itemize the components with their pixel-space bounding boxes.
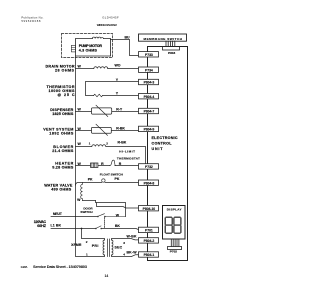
- svg-text:R-Y: R-Y: [116, 108, 123, 112]
- wire dispenser: [76, 111, 139, 113]
- svg-text:SEC: SEC: [115, 246, 123, 250]
- footer service data sheet: [33, 264, 108, 278]
- label WO: [115, 63, 121, 67]
- label NEUT: [53, 212, 63, 216]
- svg-text:PK: PK: [88, 178, 93, 182]
- label W: [78, 162, 82, 166]
- wire blower: [76, 147, 146, 164]
- svg-text:DISPLAY: DISPLAY: [167, 207, 183, 211]
- svg-text:2: 2: [86, 240, 88, 244]
- label W: [78, 108, 82, 112]
- svg-text:2: 2: [106, 141, 108, 145]
- svg-text:PRI: PRI: [92, 244, 99, 248]
- NEUT wire: [51, 216, 97, 218]
- label Y top: [116, 78, 119, 82]
- display connector bar P702: [168, 247, 182, 250]
- wire vent: [76, 130, 139, 132]
- svg-text:P733: P733: [145, 53, 153, 57]
- svg-text:NEUT: NEUT: [53, 212, 63, 216]
- label R-BK: [116, 127, 125, 131]
- svg-text:14: 14: [105, 274, 109, 278]
- heater element symbol: [91, 163, 98, 167]
- label BK: [115, 224, 121, 228]
- svg-text:BU: BU: [125, 36, 131, 40]
- svg-text:3: 3: [123, 241, 125, 245]
- publication number text: [21, 16, 43, 23]
- label W door: [116, 214, 120, 218]
- label HI-LIMIT THERMOSTAT: [117, 150, 140, 161]
- connector P804-1: [139, 252, 159, 257]
- svg-text:P701: P701: [145, 229, 153, 233]
- door switch contact pole 2: [95, 228, 97, 230]
- svg-text:Service Data Sheet - 154079803: Service Data Sheet - 154079803: [33, 264, 88, 269]
- connector P803 bar: [163, 47, 180, 51]
- svg-text:L1 BK: L1 BK: [51, 224, 62, 228]
- svg-text:PUMP MOTOR: PUMP MOTOR: [79, 44, 103, 48]
- svg-text:P732: P732: [145, 165, 153, 169]
- label PK: [115, 177, 120, 181]
- svg-text:FLOAT SWITCH: FLOAT SWITCH: [100, 173, 124, 177]
- float switch contact: [102, 179, 105, 182]
- label R: [101, 162, 104, 166]
- svg-text:PK: PK: [115, 177, 120, 181]
- connector P804-7: [139, 108, 159, 113]
- transformer primary winding: [103, 240, 104, 255]
- blower row: [52, 145, 74, 153]
- svg-text:1: 1: [89, 142, 91, 146]
- svg-text:P804-1: P804-1: [144, 253, 155, 257]
- svg-text:1: 1: [86, 253, 88, 257]
- svg-text:ELECTRONIC: ELECTRONIC: [152, 136, 178, 140]
- svg-text:28 OHMS: 28 OHMS: [55, 68, 75, 72]
- thermistor resistor zigzag: [94, 94, 103, 97]
- label P803: [168, 51, 176, 55]
- label R-Y: [116, 108, 123, 112]
- pump motor label: [79, 44, 103, 52]
- label R: [119, 162, 122, 166]
- svg-text:21.4 OHMS: 21.4 OHMS: [52, 149, 74, 153]
- dispenser row: [50, 108, 74, 116]
- pump motor inner box: [76, 39, 111, 57]
- pin 4: [123, 253, 125, 257]
- transformer core: [108, 239, 110, 257]
- wire float: [76, 183, 139, 186]
- label PRI: [92, 244, 99, 248]
- label W: [78, 64, 82, 68]
- label L1 BK: [51, 224, 62, 228]
- pin 1: [89, 142, 91, 146]
- transformer secondary winding: [112, 240, 114, 255]
- label BU: [125, 36, 131, 40]
- svg-text:1892 OHMS: 1892 OHMS: [49, 132, 74, 136]
- svg-text:BK-W: BK-W: [127, 251, 138, 255]
- connector P804-9: [139, 126, 159, 131]
- svg-text:P804-4: P804-4: [144, 95, 155, 99]
- svg-text:P804-10: P804-10: [143, 207, 156, 211]
- ECU label: [152, 136, 178, 151]
- svg-text:P804-3: P804-3: [144, 81, 155, 85]
- L1 BK wire: [51, 229, 139, 230]
- svg-text:R-BK: R-BK: [118, 140, 127, 144]
- connector P804-4: [139, 94, 159, 99]
- dispenser solenoid symbol: [92, 108, 112, 114]
- connector P734: [139, 67, 159, 72]
- hi-limit thermostat symbol: [110, 160, 116, 165]
- connector P733: [139, 52, 159, 57]
- svg-text:P734: P734: [145, 68, 153, 72]
- blower motor coil: [92, 145, 106, 147]
- W bus wire: [75, 56, 77, 217]
- svg-text:MEMBRANE SWITCH: MEMBRANE SWITCH: [144, 37, 183, 41]
- label FLOAT SWITCH: [100, 173, 124, 177]
- corner mark: [21, 265, 29, 269]
- junction bk/xfmr: [81, 228, 83, 230]
- svg-text:499 OHMS: 499 OHMS: [51, 188, 72, 192]
- vent system row: [43, 128, 74, 136]
- label SEC: [115, 246, 123, 250]
- door switch linkage (dashed): [104, 218, 106, 228]
- membrane switch box: [139, 34, 187, 41]
- label R-BK: [118, 140, 127, 144]
- svg-text:R-BK: R-BK: [116, 127, 125, 131]
- svg-text:THERMOSTAT: THERMOSTAT: [117, 156, 140, 160]
- secondary pin wires: [112, 239, 139, 257]
- pump motor winding coil: [92, 37, 103, 38]
- door switch wire loop to P804-10: [96, 201, 139, 217]
- heater row: [52, 162, 74, 170]
- label Y bottom: [116, 92, 119, 96]
- svg-text:4.3 OHMS: 4.3 OHMS: [79, 49, 98, 53]
- svg-text:BK: BK: [115, 224, 121, 228]
- wire heater: [76, 165, 139, 167]
- connector P804-3: [139, 79, 159, 84]
- svg-text:P702: P702: [170, 249, 178, 253]
- wire valve to door node: [83, 200, 96, 202]
- pin 3: [123, 241, 125, 245]
- connector P804-2: [139, 238, 159, 243]
- label BK-W: [127, 251, 138, 255]
- label XFMR: [71, 243, 82, 247]
- svg-text:WO: WO: [115, 63, 121, 67]
- connector P701: [139, 227, 159, 232]
- svg-text:P804-2: P804-2: [144, 239, 155, 243]
- svg-text:60HZ: 60HZ: [37, 224, 47, 228]
- pin 2: [86, 240, 88, 244]
- label DOOR SWITCH: [80, 207, 93, 215]
- svg-text:CONTROL: CONTROL: [152, 141, 173, 145]
- svg-text:HI-LIMIT: HI-LIMIT: [119, 150, 135, 154]
- svg-text:UNIT: UNIT: [152, 147, 164, 151]
- svg-text:XFMR: XFMR: [71, 243, 82, 247]
- pump motor dashed enclosure: [62, 34, 113, 58]
- pin 1: [86, 253, 88, 257]
- electronic control unit box: [148, 47, 188, 261]
- connector P732: [139, 164, 159, 169]
- label W-BK: [127, 234, 137, 238]
- seven segment digit 2: [174, 217, 181, 233]
- svg-text:P804-8: P804-8: [144, 181, 155, 185]
- label W: [78, 142, 82, 146]
- svg-text:9.28 OHMS: 9.28 OHMS: [52, 166, 74, 170]
- svg-text:@ 25 C: @ 25 C: [58, 93, 75, 97]
- connector P804-8: [139, 180, 159, 185]
- svg-text:WIRING DIAGRAM: WIRING DIAGRAM: [97, 23, 118, 27]
- label PK: [88, 178, 93, 182]
- thermistor wire loop: [86, 82, 139, 96]
- label DRAIN MOTOR 28 OHMS: [46, 64, 75, 72]
- svg-text:W-BK: W-BK: [127, 234, 137, 238]
- svg-text:GWA: GWA: [21, 265, 29, 269]
- ribbon cable P803: [166, 41, 175, 46]
- water valve coil: [81, 183, 83, 201]
- svg-text:5995ZD088: 5995ZD088: [21, 19, 40, 23]
- seven segment digit 1: [165, 217, 172, 233]
- pump motor terminal symbol: [71, 45, 75, 52]
- label W: [78, 127, 82, 131]
- drain motor coil: [94, 67, 108, 69]
- wire drain: [76, 68, 139, 70]
- label P702: [170, 249, 178, 253]
- model number text: [102, 16, 119, 20]
- svg-text:SWITCH: SWITCH: [80, 210, 93, 214]
- label THERMISTOR 10000 OHMS @ 25 C: [47, 85, 76, 97]
- connector P804-10: [139, 206, 159, 211]
- svg-text:GLD4545F: GLD4545F: [102, 16, 119, 20]
- display box: [163, 206, 186, 240]
- label W: [77, 198, 81, 202]
- 120VAC supply labels: [34, 220, 47, 228]
- svg-text:1825 OHMS: 1825 OHMS: [52, 112, 74, 116]
- water valve: [44, 183, 73, 191]
- svg-text:P803: P803: [168, 51, 176, 55]
- wire BU pump to P733: [111, 40, 139, 56]
- svg-text:P804-7: P804-7: [144, 110, 155, 114]
- transformer primary drop wires: [76, 217, 105, 257]
- title WIRING DIAGRAM: [97, 23, 118, 27]
- display ribbon cable: [171, 239, 179, 246]
- svg-text:P804-9: P804-9: [144, 128, 155, 132]
- pin 2: [106, 141, 108, 145]
- svg-text:4: 4: [123, 253, 125, 257]
- door switch contact pole 1: [97, 216, 99, 218]
- vent solenoid symbol: [92, 127, 112, 133]
